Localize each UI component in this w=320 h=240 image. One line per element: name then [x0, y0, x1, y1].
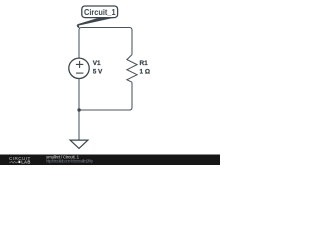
callout tail for Circuit_1 label [77, 18, 114, 26]
ground symbol [70, 140, 88, 148]
footer bar [0, 155, 220, 166]
footer CircuitLab logo: zigzag [9, 161, 18, 163]
resistor R1 zigzag [127, 55, 137, 83]
wire bottom + right lower (rounded corner) [79, 82, 132, 110]
wire left vertical lower [78, 79, 80, 140]
junction node dot [77, 108, 80, 111]
callout box Circuit_1 [82, 6, 118, 18]
svg-text:Circuit_1: Circuit_1 [84, 7, 116, 17]
V1 plus sign [76, 61, 83, 68]
footer CircuitLab logo: bright mark [18, 161, 20, 163]
svg-text:5 V: 5 V [93, 68, 103, 75]
svg-text:1 Ω: 1 Ω [140, 68, 150, 75]
svg-text:V1: V1 [93, 60, 101, 67]
svg-text:http://circuitlab.com/c/crsmal: http://circuitlab.com/c/crsmallrct2f4p [46, 159, 94, 164]
callout tail tip connector [77, 25, 79, 27]
svg-text:LAB: LAB [21, 160, 31, 165]
svg-text:R1: R1 [140, 60, 149, 67]
wire top + left upper (rounded corners) [79, 28, 132, 59]
voltage source V1 circle [69, 58, 89, 78]
V1 minus sign [76, 72, 83, 74]
